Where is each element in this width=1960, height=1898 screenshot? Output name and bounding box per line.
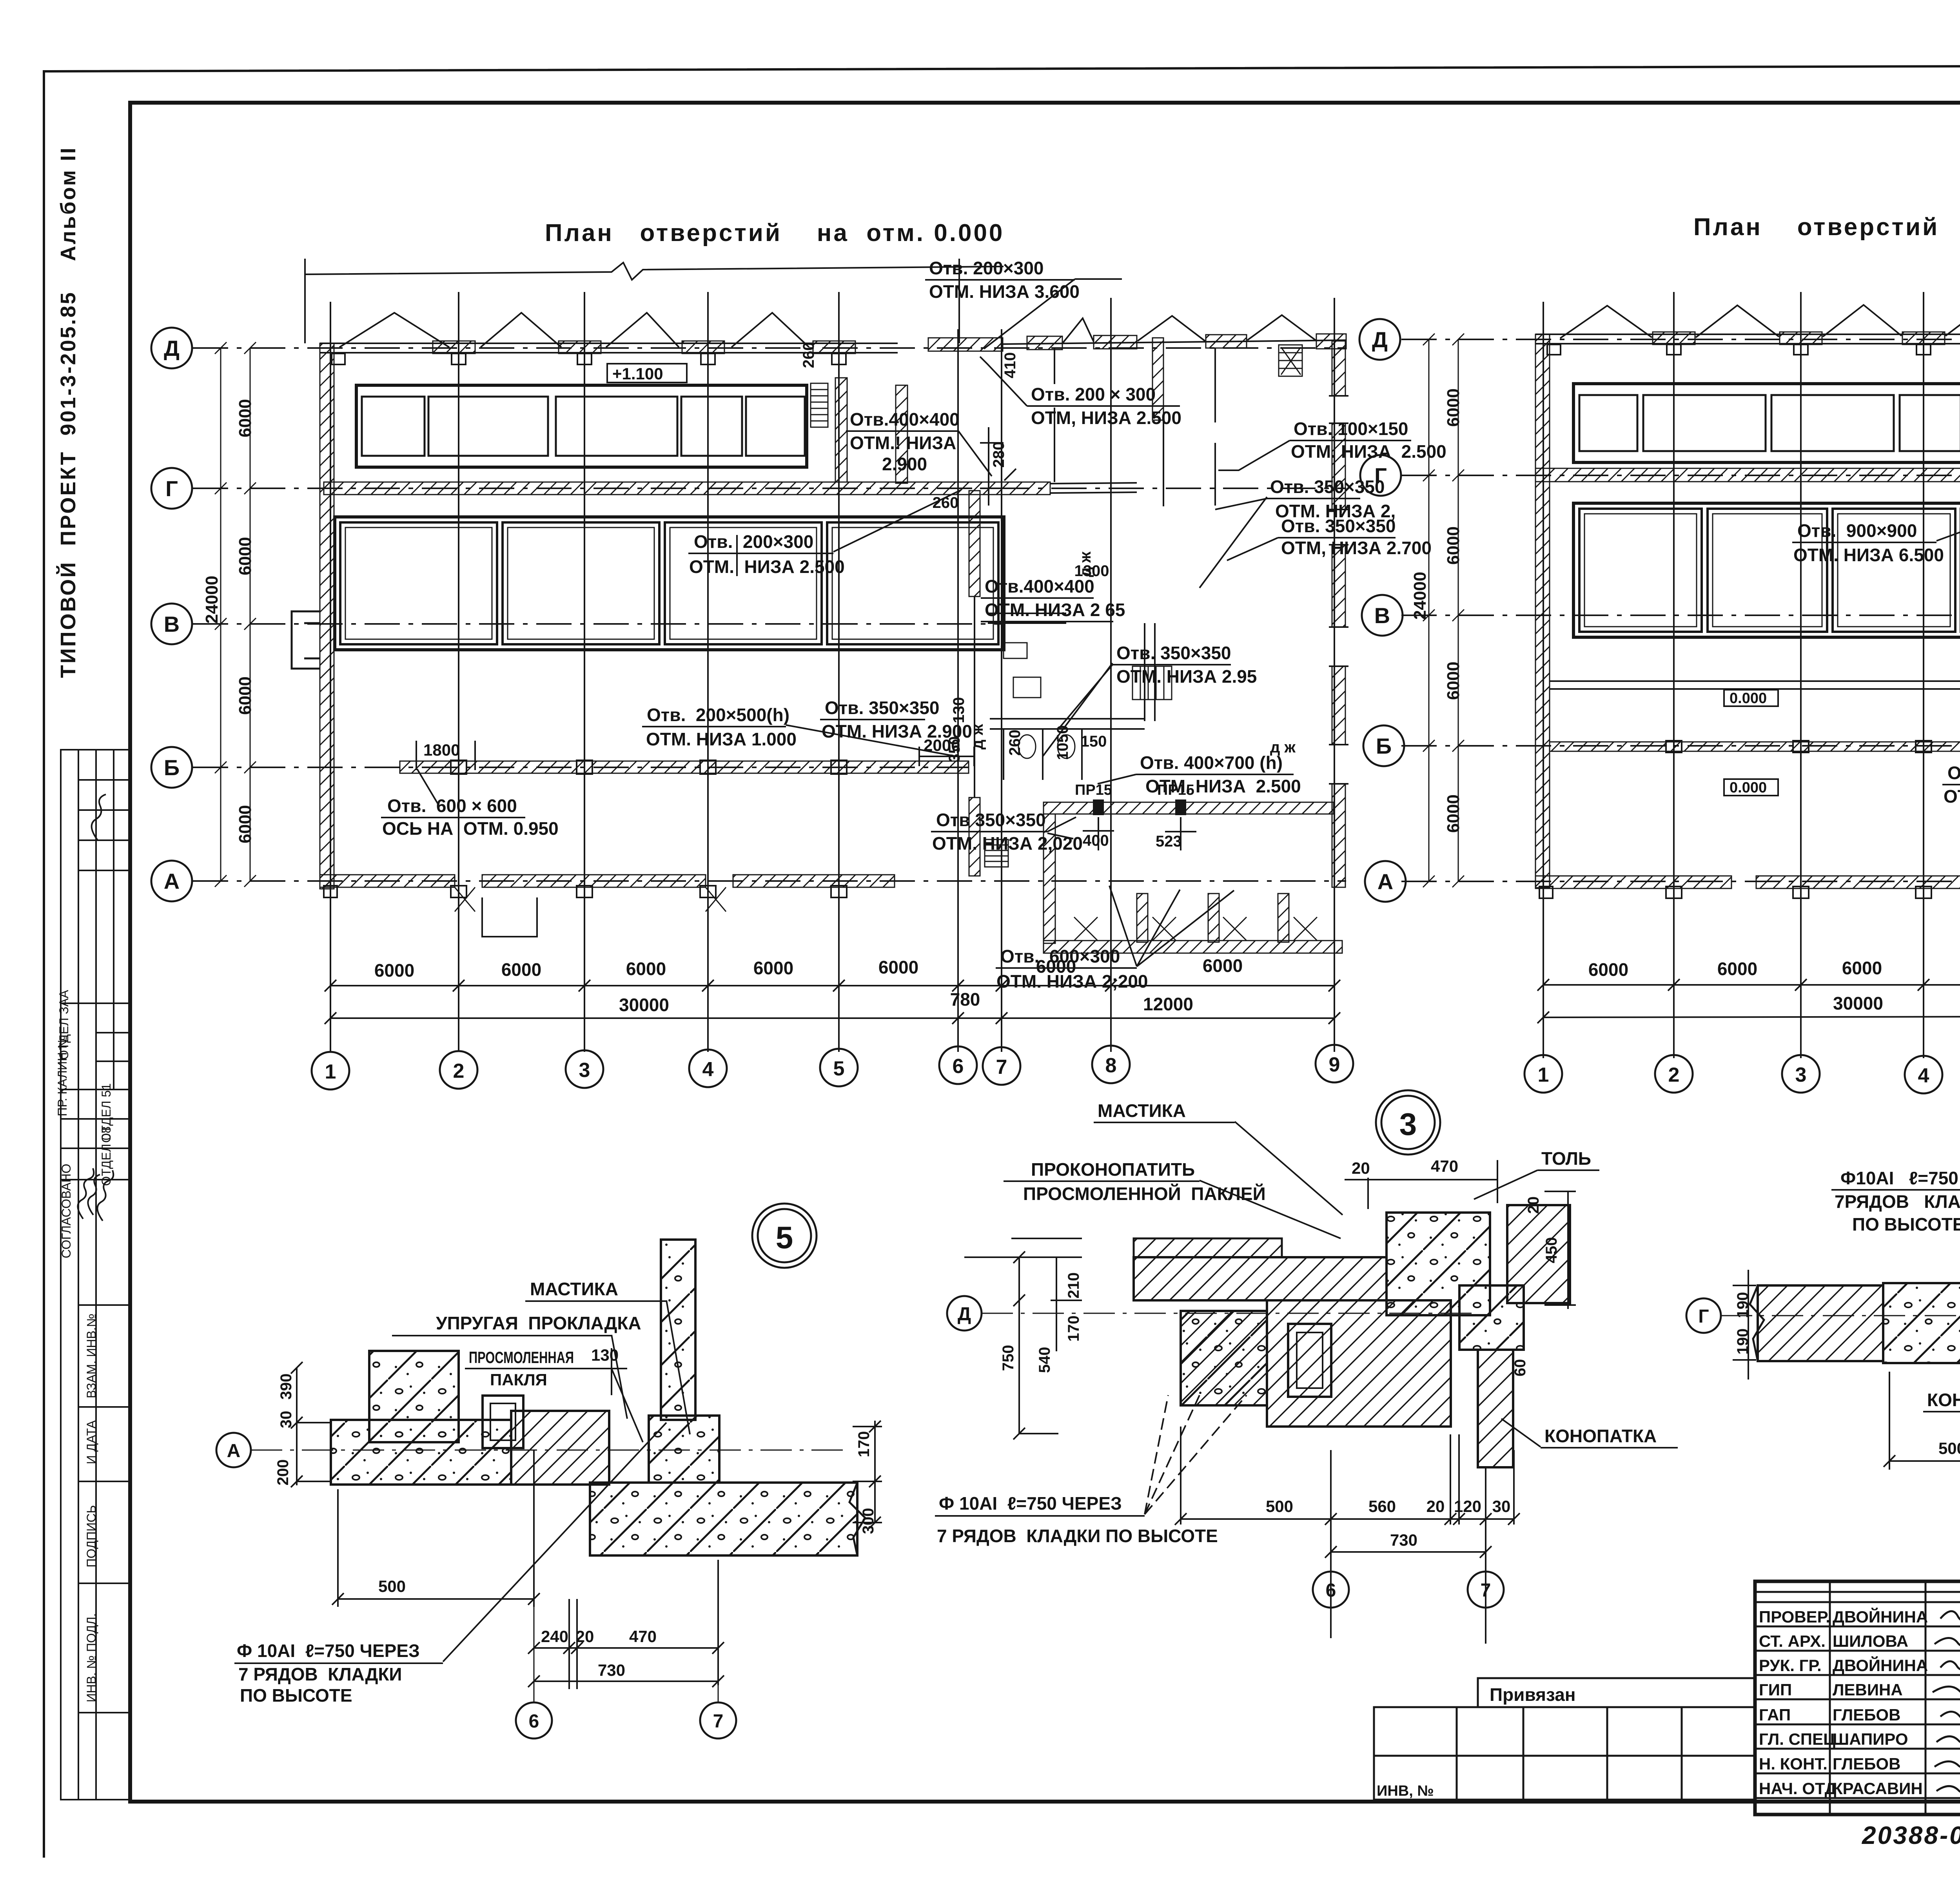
svg-text:Отв.400×400: Отв.400×400 [850, 409, 960, 430]
svg-text:ПРОВЕР.: ПРОВЕР. [1759, 1608, 1830, 1626]
svg-text:6000: 6000 [1588, 959, 1628, 980]
svg-text:МАСТИКА: МАСТИКА [530, 1279, 618, 1299]
svg-text:7: 7 [713, 1711, 724, 1732]
svg-text:3: 3 [579, 1059, 590, 1082]
axis А circle detail5 [216, 1433, 251, 1467]
svg-text:ДВОЙНИНА: ДВОЙНИНА [1833, 1607, 1928, 1626]
svg-text:4: 4 [1918, 1064, 1929, 1087]
d3 rebar note [937, 1493, 1218, 1546]
svg-text:ШИЛОВА: ШИЛОВА [1833, 1632, 1908, 1650]
svg-text:523: 523 [1156, 833, 1182, 850]
svg-text:6000: 6000 [236, 399, 255, 437]
svg-text:Отв. 100×150: Отв. 100×150 [1294, 419, 1408, 439]
d3 bottom dims [1266, 1497, 1510, 1549]
svg-text:5: 5 [833, 1057, 845, 1080]
svg-text:ПР. КАЛИН №: ПР. КАЛИН № [55, 1035, 69, 1116]
svg-text:ИНВ. № ПОДЛ.: ИНВ. № ПОДЛ. [84, 1613, 98, 1702]
left vertical dimension chains [215, 342, 256, 887]
signatures squiggles [1933, 1611, 1960, 1793]
annotation 350x350 niza 2020 [932, 810, 1083, 854]
right small block [649, 1416, 719, 1483]
svg-text:Отв. 350×350: Отв. 350×350 [1116, 643, 1231, 663]
svg-text:750: 750 [1000, 1345, 1017, 1371]
svg-text:ОТМ. НИЗА 2.95: ОТМ. НИЗА 2.95 [1116, 666, 1257, 687]
steel channel box [483, 1396, 523, 1448]
svg-text:ОТМ. НИЗА 3.600: ОТМ. НИЗА 3.600 [929, 281, 1080, 302]
svg-text:План отверстий на отм.: План отверстий на отм. 3.600 [1693, 214, 1960, 241]
svg-text:ИНВ, №: ИНВ, № [1377, 1783, 1434, 1799]
svg-text:ОТМ, НИЗА 2.700: ОТМ, НИЗА 2.700 [1281, 538, 1432, 558]
ladder symbol [811, 383, 828, 427]
d3 left upper hatched strip [1134, 1238, 1282, 1257]
svg-text:А: А [1377, 869, 1393, 894]
masonry mid hatched [511, 1411, 609, 1485]
annotation 400x400 niza 265 [985, 576, 1125, 620]
svg-text:6000: 6000 [1203, 955, 1243, 976]
дж door labels [969, 551, 1296, 756]
annotation 400x700(h) [1140, 752, 1301, 796]
svg-text:6000: 6000 [1036, 956, 1076, 977]
svg-text:Б: Б [164, 755, 180, 780]
svg-text:ОТДЕЛ 08: ОТДЕЛ 08 [99, 1126, 113, 1186]
grid row axes А-Д left plan [193, 348, 1346, 881]
svg-text:60: 60 [1512, 1359, 1529, 1377]
svg-text:ТИПОВОЙ ПРОЕКТ 901-3-205.85: ТИПОВОЙ ПРОЕКТ 901-3-205.85 Альбом II [56, 146, 80, 678]
annotation Отв 600х600 [382, 796, 559, 839]
svg-text:Привязан: Привязан [1490, 1684, 1576, 1705]
d4 left wall hatched [1758, 1285, 1883, 1361]
svg-text:ОТМ.! НИЗА: ОТМ.! НИЗА [850, 433, 956, 453]
svg-text:7 РЯДОВ КЛАДКИ ПО ВЫСОТЕ: 7 РЯДОВ КЛАДКИ ПО ВЫСОТЕ [937, 1526, 1218, 1546]
svg-text:Отв.400×400: Отв.400×400 [985, 576, 1094, 596]
svg-text:6000: 6000 [501, 959, 541, 980]
svg-text:260: 260 [933, 494, 959, 511]
d3 lower-right hatched pier [1478, 1350, 1513, 1467]
column marks on top wall [332, 341, 855, 364]
svg-text:ГИП: ГИП [1759, 1680, 1792, 1699]
grid row axes А-Д right plan [1401, 339, 1960, 881]
svg-text:КОНОПАТКА: КОНОПАТКА [1544, 1426, 1657, 1446]
wall line В-Б [1550, 681, 1960, 689]
svg-text:Отв. 200 × 300: Отв. 200 × 300 [1031, 384, 1156, 404]
svg-text:410: 410 [1002, 352, 1019, 379]
svg-text:ДВОЙНИНА: ДВОЙНИНА [1833, 1656, 1928, 1675]
row Г wall continuation thin [1050, 483, 1137, 493]
corridor wall hatched [1044, 802, 1334, 814]
right plan tank band Г-В [1573, 503, 1960, 637]
svg-text:6000: 6000 [1842, 958, 1882, 978]
svg-text:30000: 30000 [619, 995, 669, 1015]
svg-text:30000: 30000 [1833, 993, 1883, 1013]
rooflight zigzag [339, 313, 809, 347]
annotation 350x350 niza 295 [1116, 643, 1257, 687]
svg-text:КРАСАВИН: КРАСАВИН [1833, 1779, 1923, 1798]
svg-text:ПРОКОНОПАТИТЬ: ПРОКОНОПАТИТЬ [1031, 1159, 1195, 1180]
svg-text:Д: Д [1372, 327, 1388, 352]
d3 concrete block lower left [1181, 1311, 1267, 1405]
small rotated dims right wing [800, 342, 1109, 763]
svg-text:560: 560 [1368, 1497, 1396, 1515]
svg-text:Д: Д [164, 336, 180, 361]
right plan left dimension chains [1423, 334, 1464, 887]
svg-text:ЛЕВИНА: ЛЕВИНА [1833, 1680, 1903, 1699]
svg-text:6000: 6000 [1444, 388, 1463, 427]
top wall segments right wing [928, 334, 1346, 351]
detail5 bottom dims [378, 1577, 657, 1679]
svg-text:0.000: 0.000 [1730, 690, 1767, 707]
svg-text:3: 3 [1795, 1064, 1807, 1086]
d3 grid circles 6 7 [1313, 1572, 1349, 1608]
row Г wall hatched [324, 482, 1050, 495]
stair grille [1132, 666, 1172, 700]
left extension cells [1478, 1678, 1755, 1707]
rooflight zigzag right plan main hall [1560, 304, 1960, 338]
toilet fixtures [1004, 643, 1075, 758]
svg-text:120: 120 [1454, 1497, 1481, 1515]
grid circles 1-9 left plan [312, 1045, 1353, 1089]
rooflight zigzag right wing [1063, 315, 1316, 343]
svg-text:20388-02: 20388-02 [1862, 1821, 1960, 1849]
svg-text:7 РЯДОВ КЛАДКИ: 7 РЯДОВ КЛАДКИ [238, 1664, 402, 1684]
svg-text:ПОДПИСЬ: ПОДПИСЬ [84, 1505, 98, 1568]
vertical wall pier detail5 [661, 1240, 695, 1420]
svg-text:540: 540 [1036, 1347, 1053, 1373]
row letter circles right plan [1359, 319, 1406, 902]
window band row Д-Г [356, 385, 807, 467]
svg-text:6000: 6000 [1444, 526, 1463, 565]
svg-text:170: 170 [855, 1431, 873, 1457]
0.000 level boxes [1724, 690, 1778, 706]
d3 small square block right [1459, 1285, 1524, 1350]
svg-text:6000: 6000 [374, 960, 414, 981]
svg-text:130: 130 [591, 1346, 619, 1364]
svg-text:Ф 10АІ ℓ=750 ЧЕРЕЗ: Ф 10АІ ℓ=750 ЧЕРЕЗ [939, 1493, 1122, 1514]
small stair top right [1279, 345, 1302, 376]
svg-text:Отв. 350×350: Отв. 350×350 [1270, 477, 1385, 497]
svg-text:Отв. 350×400(h): Отв. 350×400(h) [1947, 763, 1960, 783]
svg-text:240: 240 [541, 1627, 568, 1646]
grid circles 1-9 right plan [1524, 1055, 1960, 1100]
row letter circles left plan [151, 328, 192, 901]
svg-text:6000: 6000 [1717, 959, 1757, 979]
d4 dims rotated [1734, 1272, 1960, 1355]
svg-text:ПО ВЫСОТЕ: ПО ВЫСОТЕ [240, 1685, 352, 1706]
svg-text:24000: 24000 [202, 576, 221, 624]
svg-text:450: 450 [1543, 1237, 1560, 1264]
svg-text:780: 780 [950, 989, 980, 1010]
svg-text:ПР15: ПР15 [1157, 782, 1194, 798]
svg-text:20: 20 [1426, 1497, 1445, 1515]
right plan row Г wall hatched [1535, 468, 1960, 482]
svg-text:КОНОПАТКА: КОНОПАТКА [1927, 1390, 1960, 1410]
svg-text:Ф 10АІ ℓ=750 ЧЕРЕЗ: Ф 10АІ ℓ=750 ЧЕРЕЗ [237, 1641, 420, 1661]
row Б wall hatched [400, 761, 969, 773]
svg-text:ГАП: ГАП [1759, 1706, 1791, 1724]
d3 channel [1288, 1324, 1331, 1397]
svg-text:ПР15: ПР15 [1075, 782, 1112, 798]
svg-text:ПАКЛЯ: ПАКЛЯ [490, 1370, 547, 1389]
ladder symbol lower [985, 839, 1008, 867]
svg-text:6000: 6000 [626, 959, 666, 979]
svg-text:20: 20 [1525, 1196, 1542, 1214]
lower extension walls [1044, 814, 1055, 943]
left plan bottom dimension chains [325, 980, 1340, 1024]
detail5 left dims [274, 1374, 877, 1534]
interior piers hatched [896, 385, 907, 483]
svg-text:470: 470 [629, 1627, 657, 1646]
svg-text:260: 260 [1006, 730, 1024, 756]
svg-text:Отв. 350×350: Отв. 350×350 [1281, 516, 1396, 536]
svg-text:Г: Г [1698, 1306, 1709, 1327]
svg-text:А: А [227, 1441, 241, 1461]
svg-text:УПРУГАЯ ПРОКЛАДКА: УПРУГАЯ ПРОКЛАДКА [436, 1313, 641, 1333]
d3 right top concrete block [1387, 1213, 1490, 1315]
svg-text:ШАПИРО: ШАПИРО [1833, 1730, 1908, 1748]
svg-text:730: 730 [598, 1661, 625, 1679]
svg-text:30: 30 [1492, 1497, 1511, 1515]
svg-text:30: 30 [278, 1411, 295, 1428]
svg-text:2: 2 [1668, 1064, 1680, 1086]
svg-text:6000: 6000 [1444, 794, 1463, 833]
svg-text:12000: 12000 [1143, 994, 1193, 1014]
svg-text:ОТМ. НИЗА 6.500: ОТМ. НИЗА 6.500 [1793, 545, 1944, 565]
svg-text:6000: 6000 [236, 676, 255, 715]
annotation 350x350 x2 (between plans) [1270, 477, 1396, 521]
svg-text:ОСЬ НА ОТМ. 0.950: ОСЬ НА ОТМ. 0.950 [382, 818, 559, 839]
svg-text:ПРОСМОЛЕННОЙ ПАКЛЕЙ: ПРОСМОЛЕННОЙ ПАКЛЕЙ [1023, 1184, 1266, 1204]
svg-text:150: 150 [1081, 733, 1107, 750]
svg-text:ОТМ, НИЗА 2.500: ОТМ, НИЗА 2.500 [1031, 408, 1181, 428]
right outer wall segments [1332, 341, 1345, 887]
svg-text:24000: 24000 [1410, 572, 1430, 620]
stamp signature squiggles [78, 794, 113, 1221]
annotation 400x400 niza 2900 [850, 409, 960, 474]
svg-text:130: 130 [950, 697, 967, 723]
svg-text:280: 280 [990, 442, 1007, 468]
d3 floor slab hatched [1134, 1257, 1387, 1300]
svg-text:НАЧ. ОТД: НАЧ. ОТД [1759, 1779, 1837, 1798]
svg-text:Г: Г [1374, 463, 1387, 488]
left approval stamp table [61, 750, 130, 1800]
svg-text:Н. КОНТ.: Н. КОНТ. [1759, 1755, 1828, 1773]
svg-text:ОТМ. НИЗА 2 65: ОТМ. НИЗА 2 65 [985, 600, 1125, 620]
svg-text:ТОЛЬ: ТОЛЬ [1541, 1148, 1591, 1169]
svg-text:9: 9 [1329, 1053, 1340, 1076]
d3 right vertical wall [1507, 1205, 1570, 1303]
svg-text:д ж: д ж [969, 724, 986, 750]
svg-text:20: 20 [1352, 1159, 1370, 1177]
svg-text:6000: 6000 [753, 958, 793, 978]
svg-text:ПО ВЫСОТЕ: ПО ВЫСОТЕ [1852, 1214, 1960, 1235]
bottom wall row А segments [320, 875, 895, 887]
svg-text:6000: 6000 [236, 805, 255, 843]
svg-text:470: 470 [1431, 1157, 1458, 1175]
annotation 600x300 [996, 946, 1148, 992]
svg-text:ПРОСМОЛЕННАЯ: ПРОСМОЛЕННАЯ [469, 1348, 574, 1367]
left concrete block [369, 1351, 459, 1442]
leader to wall [833, 490, 961, 552]
svg-text:7РЯДОВ КЛАДКИ: 7РЯДОВ КЛАДКИ [1835, 1191, 1960, 1212]
svg-text:500: 500 [378, 1577, 406, 1595]
d4 break line left [1750, 1285, 1764, 1361]
svg-text:МАСТИКА: МАСТИКА [1098, 1100, 1186, 1121]
svg-text:170: 170 [1065, 1316, 1082, 1342]
svg-text:Отв. 200×300: Отв. 200×300 [929, 258, 1044, 278]
grid column axes 1-9 left plan [330, 292, 1334, 1052]
svg-text:ГЛ. СПЕЦ: ГЛ. СПЕЦ [1759, 1730, 1835, 1748]
detail5 grid circles 6 7 [516, 1702, 552, 1738]
svg-text:6000: 6000 [236, 537, 255, 575]
tank cells [340, 522, 998, 644]
svg-text:В: В [164, 612, 180, 636]
svg-text:390: 390 [278, 1374, 295, 1400]
annotation 200x300 niza 2500 [1031, 384, 1181, 428]
svg-text:ОТМ. НИЗА 7,?30: ОТМ. НИЗА 7,?30 [1944, 786, 1960, 807]
svg-text:210: 210 [1065, 1273, 1082, 1299]
slab break mark [849, 1483, 865, 1555]
svg-text:400: 400 [1083, 832, 1109, 849]
annotation 100x150 (between plans) [1291, 419, 1446, 462]
left wall (hatched) [320, 343, 334, 889]
annotation 200x300 niza 3600 [929, 258, 1080, 302]
porch bump row B [292, 611, 320, 669]
svg-text:Б: Б [1376, 734, 1392, 758]
d3 masonry lower mid [1181, 1300, 1451, 1427]
door arcs lower rooms [1074, 917, 1317, 941]
svg-text:РУК. ГР.: РУК. ГР. [1759, 1656, 1822, 1675]
svg-text:6: 6 [529, 1711, 539, 1732]
right plan window band [1573, 384, 1960, 462]
annotation Отв 200х500(h) [646, 705, 797, 749]
hatched pier at row Г right [835, 378, 847, 482]
door arcs bottom wall [455, 887, 726, 912]
svg-text:4: 4 [702, 1058, 714, 1081]
svg-text:Отв. 600 × 600: Отв. 600 × 600 [387, 796, 517, 816]
svg-text:7: 7 [996, 1056, 1007, 1079]
svg-text:Г: Г [165, 476, 178, 501]
d3 left dims [1000, 1196, 1560, 1377]
svg-text:А: А [164, 869, 180, 894]
svg-text:Отв. 200×500(h): Отв. 200×500(h) [647, 705, 789, 725]
window sill ticks on right wall [1329, 396, 1348, 784]
porch below row А [482, 897, 537, 937]
d3 axis Д circle [947, 1296, 982, 1331]
svg-text:Отв. 350×350: Отв. 350×350 [825, 698, 940, 718]
svg-text:И ДАТА: И ДАТА [84, 1420, 98, 1464]
svg-text:7: 7 [1481, 1580, 1491, 1601]
right slab [590, 1483, 857, 1555]
svg-text:260: 260 [800, 342, 817, 368]
bottom wall row А right plan [1535, 876, 1960, 888]
svg-text:6: 6 [953, 1055, 964, 1078]
svg-text:План отверстий на отм. 0: План отверстий на отм. 0.000 [545, 219, 1004, 247]
svg-text:350: 350 [946, 736, 963, 763]
svg-text:6000: 6000 [878, 957, 918, 977]
svg-text:Отв 350×350: Отв 350×350 [936, 810, 1046, 830]
detail 5 circle [752, 1204, 817, 1268]
svg-text:СОГЛАСОВАНО: СОГЛАСОВАНО [59, 1164, 73, 1258]
svg-text:ВЗАМ. ИНВ.№: ВЗАМ. ИНВ.№ [84, 1314, 98, 1398]
annotation 900x900 [1793, 520, 1944, 565]
svg-text:1: 1 [1538, 1064, 1549, 1086]
d4 concrete block [1883, 1283, 1960, 1363]
+1.100 level mark [607, 364, 687, 383]
svg-text:ГЛЕБОВ: ГЛЕБОВ [1833, 1706, 1900, 1724]
svg-text:1: 1 [325, 1060, 336, 1083]
detail 3 circle [1376, 1090, 1440, 1155]
svg-text:6: 6 [1326, 1580, 1336, 1601]
annotation Отв 200х300 низа 2.500 (tank band) [689, 531, 845, 577]
svg-text:1800: 1800 [423, 741, 460, 759]
svg-text:Отв. 200×300: Отв. 200×300 [694, 531, 813, 552]
svg-text:200: 200 [274, 1459, 292, 1486]
right plan bottom dimension chains [1537, 972, 1960, 1023]
d4 rebar note [1835, 1168, 1960, 1235]
foundation band hatched [331, 1420, 511, 1485]
svg-text:Д: Д [958, 1304, 971, 1325]
title block outer [1755, 1581, 1960, 1815]
annotation 350x400(h) [1944, 763, 1960, 807]
signature table columns [1829, 1581, 1831, 1815]
svg-text:2: 2 [453, 1060, 465, 1082]
svg-text:6000: 6000 [1444, 662, 1463, 700]
svg-text:2.900: 2.900 [882, 454, 927, 474]
tank band Г-В outer [335, 517, 1004, 650]
top wall column marks right plan [1547, 332, 1960, 355]
interior thin walls [975, 348, 1215, 798]
svg-text:20: 20 [576, 1627, 594, 1646]
dim tick 280 [980, 427, 1019, 506]
svg-text:В: В [1374, 603, 1390, 628]
svg-text:ГЛЕБОВ: ГЛЕБОВ [1833, 1755, 1900, 1773]
top wall row Д [320, 343, 898, 353]
signature table rows [1755, 1591, 1960, 1593]
svg-text:Ф10АІ ℓ=750 ЧЕРЕЗ: Ф10АІ ℓ=750 ЧЕРЕЗ [1840, 1168, 1960, 1188]
svg-text:СТ. АРХ.: СТ. АРХ. [1759, 1632, 1826, 1650]
annotation Отв 350х350 низа 2.900 [822, 698, 972, 741]
grid column axes 1-9 right plan [1543, 292, 1960, 1058]
svg-text:8: 8 [1105, 1054, 1117, 1077]
title block texts [1759, 1607, 1928, 1798]
svg-text:+1.100: +1.100 [612, 364, 663, 383]
stamp rotated labels [55, 990, 113, 1702]
svg-text:730: 730 [1390, 1531, 1417, 1549]
svg-text:ОТМ. НИЗА 1.000: ОТМ. НИЗА 1.000 [646, 729, 797, 749]
top chain line with break [305, 263, 1004, 280]
row Б wall right plan [1550, 742, 1960, 751]
d4 axis Г circle [1686, 1298, 1721, 1333]
svg-text:Отв. 400×700 (h): Отв. 400×700 (h) [1140, 752, 1283, 773]
svg-text:5: 5 [776, 1220, 793, 1255]
svg-text:Отв. 900×900: Отв. 900×900 [1797, 520, 1917, 541]
d4 bottom dims [1938, 1439, 1960, 1493]
svg-text:0.000: 0.000 [1730, 780, 1767, 796]
right plan left wall [1535, 334, 1550, 888]
svg-text:500: 500 [1266, 1497, 1293, 1515]
svg-text:3: 3 [1399, 1107, 1417, 1142]
right plan top wall [1535, 334, 1960, 344]
left margin project stamp vertical text [56, 146, 80, 678]
svg-text:ОТМ. НИЗА 2.500: ОТМ. НИЗА 2.500 [689, 557, 845, 577]
svg-text:500: 500 [1938, 1439, 1960, 1457]
detail5 rebar note [237, 1641, 420, 1706]
